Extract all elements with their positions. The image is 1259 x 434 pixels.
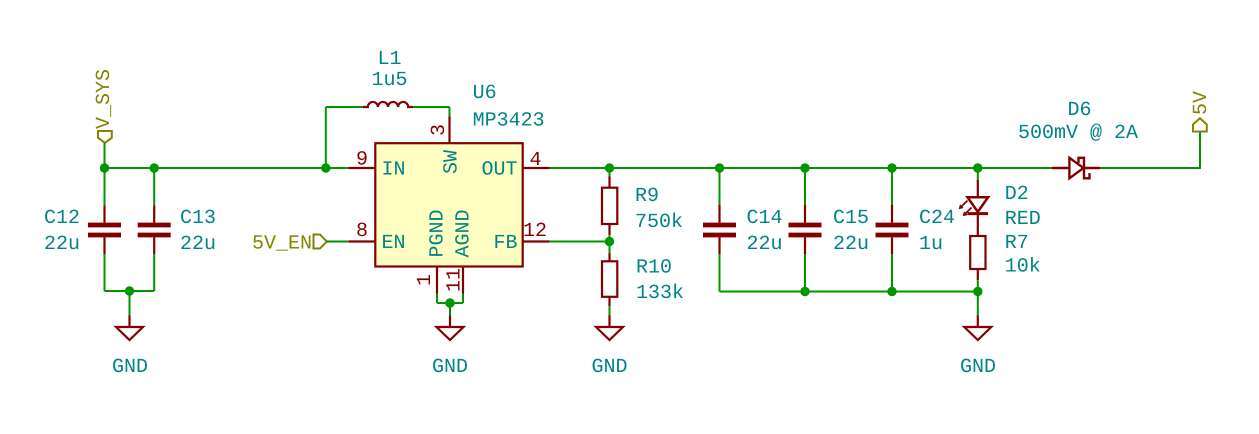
wire pin 11 stub xyxy=(462,294,464,304)
svg-text:22u: 22u xyxy=(180,233,216,256)
wire C13 bottom xyxy=(153,254,155,291)
ground symbol at U6 xyxy=(437,316,464,341)
resistor R7 xyxy=(970,236,985,280)
wire R7 bottom stub xyxy=(977,280,979,291)
junction at D2 top xyxy=(973,163,982,172)
wire 5V_EN to pin 8 xyxy=(327,241,348,243)
svg-text:C15: C15 xyxy=(833,207,869,230)
svg-text:PGND: PGND xyxy=(427,209,450,257)
ground symbol at input xyxy=(116,316,143,341)
svg-text:500mV @ 2A: 500mV @ 2A xyxy=(1018,122,1138,145)
capacitor C12 xyxy=(88,206,121,255)
svg-text:C14: C14 xyxy=(747,207,783,230)
svg-text:1: 1 xyxy=(414,274,437,286)
hierarchical label 5V_EN shape xyxy=(314,235,327,249)
wire input rail xyxy=(105,167,349,169)
svg-text:L1: L1 xyxy=(377,48,401,71)
wire D2 top stub xyxy=(977,168,979,180)
wire C12 bottom xyxy=(104,254,106,291)
svg-text:D2: D2 xyxy=(1005,183,1029,206)
svg-text:GND: GND xyxy=(591,356,627,379)
junction at input gnd tap xyxy=(125,286,134,295)
wire C15 bottom xyxy=(804,254,806,292)
wire C24 top xyxy=(891,168,893,205)
svg-text:1u: 1u xyxy=(919,233,943,256)
wire C13 top xyxy=(153,168,155,206)
svg-text:MP3423: MP3423 xyxy=(473,110,545,133)
wire pgnd drop xyxy=(449,303,451,316)
wire 5V riser xyxy=(1199,132,1201,169)
svg-text:12: 12 xyxy=(523,220,547,243)
diode D6 schottky xyxy=(1052,158,1100,179)
svg-text:SW: SW xyxy=(440,150,463,174)
wire C24 bottom xyxy=(891,254,893,292)
wire output rail xyxy=(550,167,1052,169)
junction at C15 bottom xyxy=(800,287,809,296)
ground symbol at output xyxy=(964,316,991,341)
capacitor C14 xyxy=(703,205,736,254)
svg-text:EN: EN xyxy=(382,232,406,255)
capacitor C13 xyxy=(138,206,171,255)
junction at C13 top xyxy=(150,163,159,172)
pin 4 OUT xyxy=(523,167,550,169)
svg-text:22u: 22u xyxy=(833,233,869,256)
svg-text:8: 8 xyxy=(356,220,368,243)
svg-text:GND: GND xyxy=(432,356,468,379)
junction at C24 bottom xyxy=(887,287,896,296)
svg-text:10k: 10k xyxy=(1005,256,1041,279)
svg-text:4: 4 xyxy=(529,149,541,172)
ground symbol at divider xyxy=(596,316,623,341)
wire C15 top xyxy=(804,168,806,205)
svg-text:D6: D6 xyxy=(1067,99,1091,122)
pin 11 AGND xyxy=(462,267,464,294)
svg-text:22u: 22u xyxy=(44,233,80,256)
pin 12 FB xyxy=(523,240,550,242)
svg-text:3: 3 xyxy=(428,124,451,136)
svg-text:V_SYS: V_SYS xyxy=(93,69,116,129)
pin 3 SW xyxy=(448,116,450,143)
svg-text:GND: GND xyxy=(960,356,996,379)
svg-text:R7: R7 xyxy=(1005,232,1029,255)
svg-text:1u5: 1u5 xyxy=(371,69,407,92)
wire C14 top xyxy=(719,168,721,205)
svg-text:FB: FB xyxy=(493,232,517,255)
wire R9 top stub xyxy=(609,168,611,177)
inductor L1 xyxy=(363,102,413,107)
svg-text:9: 9 xyxy=(356,149,368,172)
svg-text:C24: C24 xyxy=(919,207,955,230)
wire pin 1 stub xyxy=(436,294,438,304)
junction at C12 top xyxy=(100,163,109,172)
pin 8 EN xyxy=(348,240,375,242)
svg-text:C12: C12 xyxy=(44,207,80,230)
capacitor C24 xyxy=(876,205,909,254)
wire L1 top right xyxy=(413,106,449,108)
wire C12 top xyxy=(104,168,106,206)
pin 9 IN xyxy=(348,167,375,169)
svg-text:11: 11 xyxy=(443,268,466,292)
pin 1 PGND xyxy=(436,267,438,294)
wire SW riser xyxy=(449,107,451,116)
junction at R9 top xyxy=(605,163,614,172)
hierarchical label 5V shape xyxy=(1193,118,1207,131)
svg-text:AGND: AGND xyxy=(453,209,476,257)
svg-text:750k: 750k xyxy=(635,211,683,234)
junction at R7 bottom xyxy=(973,287,982,296)
svg-text:22u: 22u xyxy=(747,233,783,256)
capacitor C15 xyxy=(789,205,822,254)
junction at FB divider xyxy=(605,237,614,246)
wire R9 bottom stub xyxy=(609,235,611,241)
svg-text:R10: R10 xyxy=(636,256,672,279)
svg-text:RED: RED xyxy=(1005,208,1041,231)
svg-text:R9: R9 xyxy=(635,185,659,208)
svg-text:5V_EN: 5V_EN xyxy=(252,233,312,256)
svg-text:OUT: OUT xyxy=(481,158,517,181)
wire L1 top left xyxy=(326,106,363,108)
svg-text:U6: U6 xyxy=(473,82,497,105)
wire pgnd rail xyxy=(437,302,463,304)
svg-text:IN: IN xyxy=(382,158,406,181)
svg-text:5V: 5V xyxy=(1190,91,1213,115)
wire C14 bottom xyxy=(719,254,721,292)
wire D6 to 5V xyxy=(1100,167,1201,169)
wire output gnd drop xyxy=(977,292,979,316)
hierarchical label V_SYS shape xyxy=(98,131,112,143)
junction at C14 top xyxy=(715,163,724,172)
wire output gnd rail xyxy=(720,291,978,293)
resistor R9 xyxy=(602,177,617,236)
wire L1 riser xyxy=(325,107,327,168)
wire V_SYS to input rail xyxy=(104,143,106,168)
wire input gnd rail xyxy=(105,290,155,292)
wire input gnd drop xyxy=(129,291,131,316)
resistor R10 xyxy=(602,253,617,306)
wire R10 bottom stub xyxy=(609,306,611,315)
junction at pgnd xyxy=(445,298,454,307)
svg-text:C13: C13 xyxy=(180,207,216,230)
svg-text:GND: GND xyxy=(112,356,148,379)
op-amp U6 body xyxy=(375,143,522,266)
LED D2 xyxy=(959,180,988,236)
wire R10 top stub xyxy=(609,242,611,254)
junction at L1 branch xyxy=(321,163,330,172)
junction at C15 top xyxy=(800,163,809,172)
svg-text:133k: 133k xyxy=(636,282,684,305)
junction at C24 top xyxy=(887,163,896,172)
wire FB net xyxy=(550,241,610,243)
